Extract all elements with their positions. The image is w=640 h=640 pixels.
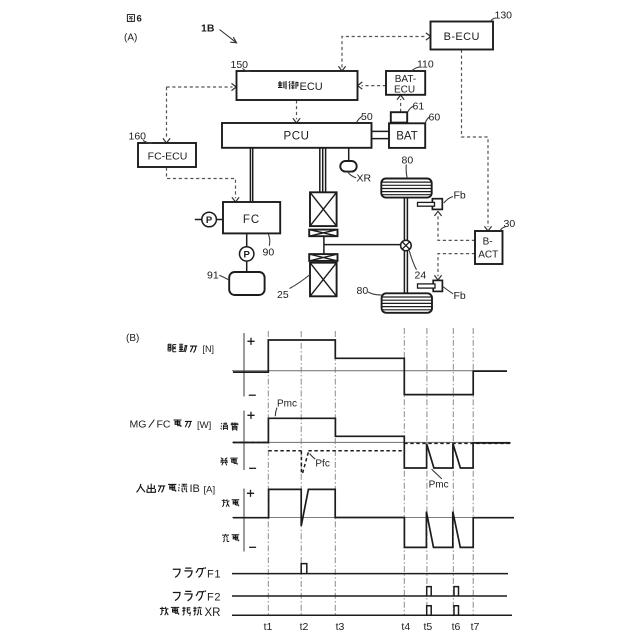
svg-text:110: 110 [417, 59, 434, 71]
svg-text:FC-ECU: FC-ECU [148, 150, 188, 162]
svg-text:50: 50 [361, 111, 373, 123]
svg-text:[W]: [W] [197, 420, 211, 431]
svg-text:t6: t6 [452, 621, 461, 633]
svg-text:(A): (A) [124, 33, 137, 44]
svg-text:91: 91 [207, 270, 219, 282]
svg-text:FC: FC [243, 214, 260, 226]
svg-text:30: 30 [504, 218, 516, 230]
svg-text:60: 60 [429, 112, 441, 124]
svg-text:IB: IB [190, 483, 200, 495]
svg-text:FC: FC [157, 418, 171, 430]
svg-text:P: P [206, 215, 213, 226]
svg-text:F1: F1 [207, 569, 221, 581]
svg-text:Pmc: Pmc [277, 399, 297, 410]
svg-text:Pmc: Pmc [429, 480, 449, 491]
svg-text:25: 25 [277, 289, 289, 301]
svg-text:t7: t7 [471, 621, 480, 633]
svg-text:ECU: ECU [394, 84, 415, 95]
svg-text:t2: t2 [300, 621, 309, 633]
svg-text:Pfc: Pfc [315, 459, 329, 470]
svg-text:90: 90 [263, 247, 275, 259]
svg-text:B-: B- [483, 236, 493, 247]
svg-text:(B): (B) [126, 333, 139, 344]
svg-text:[A]: [A] [204, 484, 216, 495]
svg-text:24: 24 [415, 270, 427, 282]
svg-text:130: 130 [495, 10, 513, 22]
svg-text:150: 150 [231, 59, 249, 71]
svg-text:t5: t5 [424, 621, 433, 633]
svg-text:t1: t1 [264, 621, 273, 633]
svg-text:t3: t3 [336, 621, 345, 633]
svg-text:1B: 1B [201, 23, 215, 35]
svg-text:MG: MG [130, 418, 147, 430]
svg-text:BAT: BAT [396, 131, 418, 143]
svg-text:t4: t4 [401, 621, 410, 633]
svg-text:XR: XR [357, 173, 372, 185]
svg-text:BAT-: BAT- [395, 74, 416, 85]
svg-text:F2: F2 [207, 592, 221, 604]
svg-text:B-ECU: B-ECU [444, 31, 480, 43]
svg-text:ECU: ECU [300, 81, 323, 93]
svg-text:Fb: Fb [454, 290, 466, 302]
svg-text:Fb: Fb [454, 190, 466, 202]
svg-text:61: 61 [413, 101, 425, 113]
svg-text:ACT: ACT [478, 249, 498, 260]
svg-text:P: P [244, 249, 251, 260]
svg-text:XR: XR [205, 607, 221, 619]
svg-text:PCU: PCU [283, 131, 309, 143]
svg-text:6: 6 [137, 14, 142, 25]
svg-text:[N]: [N] [203, 344, 215, 354]
svg-text:80: 80 [402, 155, 414, 167]
svg-text:80: 80 [357, 285, 369, 297]
